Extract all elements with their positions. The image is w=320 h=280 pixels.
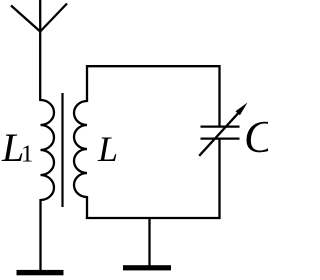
capacitor C plate bottom xyxy=(201,138,240,140)
svg-text:1: 1 xyxy=(21,141,33,168)
wire top loop from L to capacitor xyxy=(87,66,220,126)
arrow variable capacitor xyxy=(199,103,247,156)
wire left down to ground xyxy=(39,199,41,271)
ground middle xyxy=(123,265,171,270)
wire right side down from capacitor xyxy=(218,139,220,218)
capacitor C plate top xyxy=(201,125,240,127)
antenna xyxy=(11,0,67,32)
ground left xyxy=(17,270,64,275)
wire ground stub xyxy=(148,218,150,266)
svg-text:L: L xyxy=(97,129,118,169)
wire bottom loop xyxy=(86,217,221,219)
inductor L1 xyxy=(41,100,55,200)
wire L bottom exit xyxy=(86,196,88,219)
inductor L xyxy=(74,101,87,197)
label L1 xyxy=(1,125,33,170)
svg-text:C: C xyxy=(244,112,268,162)
wire antenna lead xyxy=(39,31,41,101)
transformer core xyxy=(61,93,63,207)
